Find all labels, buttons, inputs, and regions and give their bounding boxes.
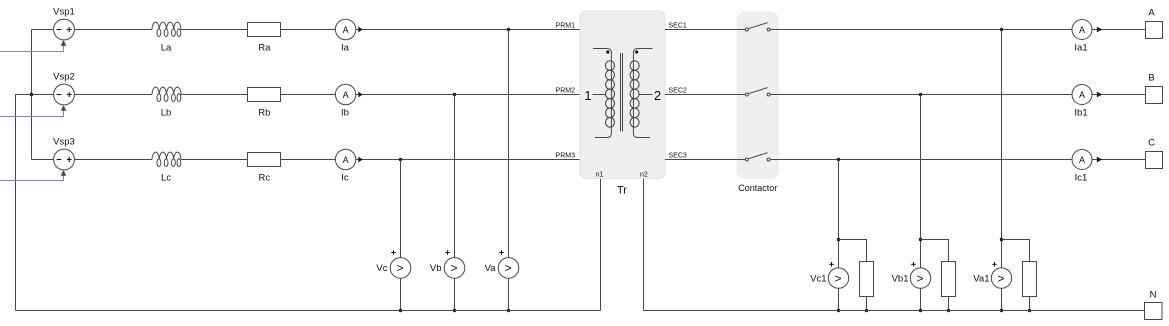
svg-text:Ib1: Ib1 (1074, 108, 1087, 119)
ammeter Ic (335, 149, 355, 183)
wire SEC1 to contactor (665, 29, 745, 31)
svg-text:SEC3: SEC3 (669, 153, 687, 160)
wire Vb1 branch to load resistor (921, 240, 949, 262)
wire row 3 inductor to resistor (181, 159, 248, 161)
wire Vc vertical (400, 160, 402, 258)
wire ammeter Ic1 to terminal C (1092, 159, 1146, 161)
wire row 2 source left stub (32, 94, 54, 96)
node load b1 bottom junction (947, 309, 950, 312)
svg-text:>: > (997, 271, 1004, 285)
ammeter Ib1 (1072, 85, 1092, 119)
node Vb1 tap junction (919, 93, 922, 96)
ammeter Ic1 (1072, 150, 1092, 184)
svg-text:C: C (1148, 138, 1155, 149)
wire row 3 source left stub (32, 159, 54, 161)
wire row 1 inductor to resistor (181, 29, 248, 31)
svg-text:A: A (1148, 8, 1155, 19)
voltmeter Vb (430, 250, 465, 278)
wire row 2 resistor to ammeter (281, 94, 336, 96)
svg-text:Ib: Ib (341, 108, 349, 119)
svg-text:Vc1: Vc1 (810, 273, 826, 284)
svg-text:Ic: Ic (341, 173, 349, 184)
switch contactor pole 3 (745, 153, 770, 161)
wire source common vertical (31, 30, 33, 160)
wire Vsp2 control (blue) (0, 110, 64, 116)
svg-text:Ia1: Ia1 (1074, 43, 1087, 54)
wire n2 vertical (643, 179, 645, 311)
contactor box (737, 12, 778, 179)
svg-text:Vc: Vc (376, 263, 387, 274)
wire Vb vertical (454, 95, 456, 258)
voltmeter Va1 (973, 262, 1011, 288)
wire row 2 ammeter to transformer PRM2 (356, 94, 580, 96)
svg-text:n2: n2 (640, 172, 648, 179)
node source common junction (30, 93, 33, 96)
wire row 2 source to inductor (74, 94, 152, 96)
wire load resistor bottom (866, 297, 868, 311)
svg-text:>: > (834, 271, 841, 285)
resistor load b1 (942, 262, 956, 297)
wire load resistor bottom (948, 297, 950, 311)
node Vc1 bottom junction (837, 309, 840, 312)
voltage source Vsp2 (53, 72, 75, 105)
switch contactor pole 2 (745, 88, 770, 96)
svg-text:Va1: Va1 (973, 273, 989, 284)
node Va bottom junction (507, 309, 510, 312)
svg-text:Ia: Ia (341, 43, 350, 54)
wire contactor pole 2 to ammeter (770, 94, 1072, 96)
transformer Tr core (620, 53, 622, 132)
node Va1 tap junction (1000, 28, 1003, 31)
svg-text:>: > (916, 271, 923, 285)
voltmeter Va (485, 250, 519, 278)
node load c1 bottom junction (865, 309, 868, 312)
svg-text:Ra: Ra (258, 43, 271, 54)
svg-text:A: A (343, 155, 349, 165)
wire primary neutral bottom (16, 310, 601, 312)
svg-text:A: A (1079, 90, 1085, 100)
inductor Lb (152, 87, 181, 119)
svg-text:A: A (343, 25, 349, 35)
wire Va vertical (508, 30, 510, 258)
voltage source Vsp1 (53, 7, 75, 40)
resistor load c1 (860, 262, 874, 297)
svg-text:2: 2 (654, 88, 661, 103)
wire row 1 source left stub (32, 29, 54, 31)
wire Vsp3 control (blue) (0, 175, 64, 180)
switch contactor pole 1 (745, 23, 770, 31)
wire ammeter Ia1 to terminal A (1092, 29, 1146, 31)
svg-text:Vb1: Vb1 (892, 273, 909, 284)
wire row 3 resistor to ammeter (281, 159, 336, 161)
svg-text:A: A (1079, 25, 1085, 35)
svg-text:Rc: Rc (258, 173, 270, 184)
ammeter Ia (335, 19, 355, 53)
svg-text:SEC2: SEC2 (669, 88, 687, 95)
resistor load a1 (1023, 262, 1037, 297)
wire row 1 source to inductor (74, 29, 152, 31)
wire neutral far-left vertical (16, 95, 32, 311)
wire contactor pole 3 to ammeter (770, 159, 1072, 161)
svg-text:Lc: Lc (161, 173, 171, 184)
svg-text:1: 1 (584, 88, 591, 103)
terminal B (1146, 73, 1163, 104)
wire contactor pole 1 to ammeter (770, 29, 1072, 31)
wire Vc1 branch to load resistor (839, 240, 867, 262)
node Vb1 branch junction (919, 238, 922, 241)
svg-text:PRM2: PRM2 (556, 88, 576, 95)
svg-text:n1: n1 (596, 172, 604, 179)
svg-text:Tr: Tr (617, 185, 627, 197)
wire row 2 inductor to resistor (181, 94, 248, 96)
node Va1 bottom junction (1000, 309, 1003, 312)
node Vb1 bottom junction (919, 309, 922, 312)
svg-text:Va: Va (485, 263, 497, 274)
wire Vc1 vertical (838, 160, 840, 268)
wire Va1 branch to load resistor (1002, 240, 1030, 262)
transformer Tr primary winding (584, 49, 614, 138)
svg-text:Ic1: Ic1 (1075, 173, 1088, 184)
transformer Tr box (580, 11, 665, 179)
svg-text:PRM3: PRM3 (556, 153, 576, 160)
node Vc1 tap junction (837, 158, 840, 161)
voltage source Vsp3 (53, 137, 75, 170)
svg-text:Contactor: Contactor (738, 183, 777, 193)
svg-text:Vsp1: Vsp1 (53, 7, 75, 18)
svg-text:>: > (504, 261, 511, 275)
wire row 1 ammeter to transformer PRM1 (356, 29, 580, 31)
node Va1 branch junction (1000, 238, 1003, 241)
ammeter Ib (335, 84, 355, 118)
resistor Rb (248, 88, 281, 119)
voltmeter Vb1 (892, 262, 931, 288)
svg-text:SEC1: SEC1 (669, 23, 687, 30)
wire row 1 resistor to ammeter (281, 29, 336, 31)
terminal A (1146, 8, 1163, 39)
svg-text:B: B (1148, 73, 1154, 84)
wire Vsp1 control (blue) (0, 45, 64, 51)
node Vb bottom junction (453, 309, 456, 312)
wire ammeter Ib1 to terminal B (1092, 94, 1146, 96)
svg-text:A: A (1079, 155, 1085, 165)
svg-text:Rb: Rb (258, 108, 270, 119)
node load a1 bottom junction (1028, 309, 1031, 312)
svg-text:PRM1: PRM1 (556, 23, 576, 30)
wire load resistor bottom (1029, 297, 1031, 311)
terminal C (1146, 138, 1163, 169)
svg-text:A: A (343, 90, 349, 100)
svg-text:>: > (450, 261, 457, 275)
wire row 3 source to inductor (74, 159, 152, 161)
wire n1 vertical (600, 179, 602, 311)
voltmeter Vc (376, 250, 410, 278)
svg-text:N: N (1150, 290, 1157, 301)
svg-text:Lb: Lb (161, 108, 172, 119)
svg-text:Vsp2: Vsp2 (53, 72, 75, 83)
node Vb tap junction (453, 93, 456, 96)
ammeter Ia1 (1072, 20, 1092, 54)
wire secondary neutral bottom (644, 310, 1145, 312)
node Va tap junction (507, 28, 510, 31)
wire SEC2 to contactor (665, 94, 745, 96)
svg-text:Vb: Vb (430, 263, 442, 274)
wire SEC3 to contactor (665, 159, 745, 161)
node Vc bottom junction (399, 309, 402, 312)
resistor Ra (248, 23, 281, 54)
svg-text:La: La (161, 43, 172, 54)
transformer Tr secondary winding (630, 49, 661, 138)
node Vc tap junction (399, 158, 402, 161)
inductor Lc (152, 152, 181, 184)
wire Vb1 vertical (920, 95, 922, 268)
svg-text:Vsp3: Vsp3 (53, 137, 75, 148)
resistor Rc (248, 153, 281, 184)
wire row 3 ammeter to transformer PRM3 (356, 159, 580, 161)
wire Va1 vertical (1001, 30, 1003, 268)
terminal N (1145, 290, 1163, 320)
voltmeter Vc1 (810, 262, 849, 288)
svg-text:>: > (396, 261, 403, 275)
inductor La (152, 22, 181, 54)
node Vc1 branch junction (837, 238, 840, 241)
